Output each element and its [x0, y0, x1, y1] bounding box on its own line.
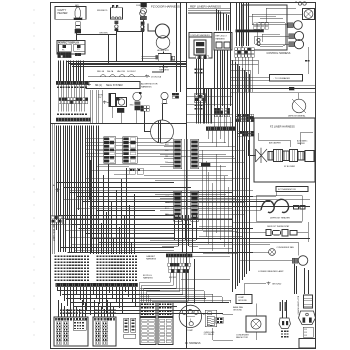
display mid connector	[194, 94, 206, 102]
mullion fan motor	[304, 10, 313, 19]
wires to arrow box	[230, 77, 270, 79]
svg-text:HARNESS: HARNESS	[146, 258, 157, 261]
wire top mid verticals	[204, 89, 206, 124]
wire ladder gap horizontals	[150, 170, 232, 172]
power plug small	[279, 318, 291, 329]
wire code row B	[57, 114, 59, 116]
svg-text:CONDENSER FAN: CONDENSER FAN	[277, 246, 295, 249]
wire mid right horizontals	[186, 96, 233, 98]
top right indicator circles	[298, 2, 301, 5]
svg-text:BASE PAN: BASE PAN	[233, 306, 243, 309]
lower freezer lamp	[292, 258, 298, 263]
wire plugs vertical	[282, 300, 284, 318]
aux connectors bottom mid-left	[124, 318, 129, 332]
arrow label box	[270, 75, 303, 82]
display board P3	[74, 44, 85, 51]
display pins row	[196, 56, 198, 59]
wire fan bottom horizontals	[58, 290, 160, 292]
svg-text:HARNESS: HARNESS	[141, 85, 152, 88]
ladder central rails	[184, 139, 186, 221]
control inner cells	[254, 23, 257, 26]
right section box	[256, 196, 302, 222]
condenser fan motor box	[246, 316, 266, 332]
svg-text:RED-7A: RED-7A	[97, 70, 105, 73]
display wire labels	[195, 69, 197, 71]
svg-text:HEATER: HEATER	[58, 12, 68, 15]
wire horizontal dark y123	[50, 123, 186, 125]
small connector below ladder	[129, 168, 135, 174]
wire ladder left feeds upper	[160, 142, 174, 144]
control harness nested box	[258, 22, 286, 46]
wire feeds secondary ladder	[86, 138, 104, 140]
svg-text:AUGER MTR: AUGER MTR	[157, 49, 169, 52]
svg-text:DOOR-FZ: DOOR-FZ	[127, 71, 136, 73]
wire wb recep down	[116, 31, 118, 34]
corner box	[299, 339, 316, 349]
display board P1	[59, 44, 72, 52]
svg-text:115: 115	[304, 335, 307, 337]
cabinet connector bar	[166, 254, 192, 258]
svg-text:SEAL SYSTEM: SEAL SYSTEM	[106, 84, 123, 87]
margin dots left	[33, 9, 34, 10]
wires bx to right	[181, 279, 230, 281]
border frame	[51, 3, 316, 349]
wire defrost chain right	[297, 232, 308, 234]
power plug main	[304, 295, 313, 308]
svg-text:GROUND: GROUND	[272, 284, 282, 286]
wire verticals bar to grid	[58, 85, 60, 98]
wire lamp thermostat	[298, 93, 300, 99]
connector rows lower	[237, 131, 239, 133]
wires ground area	[244, 283, 251, 285]
svg-text:WB RECD: WB RECD	[97, 10, 108, 12]
svg-text:DOOR-7DA: DOOR-7DA	[151, 76, 162, 79]
dispenser light bulb	[133, 92, 141, 100]
wire fan upper horizontals	[86, 142, 160, 144]
svg-text:SEE TECH SHEET: SEE TECH SHEET	[52, 224, 54, 242]
cavity heater box	[55, 7, 86, 20]
wire horiz ref top	[188, 8, 230, 10]
section divider control area left	[230, 2, 232, 88]
svg-text:PTC RELAY: PTC RELAY	[204, 333, 215, 336]
display wire labels lower	[195, 105, 197, 107]
light connector pair	[172, 93, 175, 95]
svg-text:GROUND: GROUND	[233, 310, 242, 312]
wires compressor relay	[203, 314, 205, 316]
svg-text:CABINET: CABINET	[146, 255, 156, 258]
svg-text:AIR DAMPER: AIR DAMPER	[269, 142, 281, 145]
svg-text:DEFROST THERMOSTAT: DEFROST THERMOSTAT	[267, 225, 290, 228]
relay side connector	[216, 317, 224, 323]
wire bundle mid horizontals	[60, 218, 232, 220]
water valve coil	[117, 98, 127, 107]
valve connector dark	[117, 108, 124, 112]
ref lamp 2	[289, 34, 295, 39]
control nested wires	[249, 16, 276, 18]
control wires vertical	[236, 2, 238, 46]
connector label rows right	[95, 310, 97, 312]
wire funchn down	[142, 30, 144, 33]
svg-text:DISPLAY HARNESS: DISPLAY HARNESS	[191, 34, 211, 37]
wire connector horizontal upper	[117, 31, 143, 33]
left connector rows under bar	[59, 98, 61, 101]
wire verticals display area	[204, 89, 206, 124]
ground label arrow	[268, 282, 270, 283]
connector label rows left	[60, 310, 62, 312]
ref lamp 1	[288, 23, 294, 28]
svg-text:HARNESS: HARNESS	[216, 38, 226, 41]
wire bundle verticals mid	[90, 90, 92, 123]
wire ladder right horizontals lower	[199, 194, 227, 196]
mid column dark blob	[201, 163, 210, 167]
control dark bar	[236, 30, 264, 33]
svg-text:A/C POWER SUPPLY: A/C POWER SUPPLY	[297, 296, 300, 315]
wire fan bottom verticals	[57, 287, 59, 291]
evap fan end cap	[305, 151, 314, 162]
wire drops to bottom connectors	[58, 300, 60, 317]
wires fz liner internals	[258, 140, 290, 142]
wire bundle right verticals	[232, 60, 234, 292]
display harness box	[189, 33, 212, 38]
wire fan circle connects	[144, 131, 151, 133]
evap fan propeller	[256, 148, 268, 163]
overload ptc relay	[205, 310, 216, 326]
wire fan left horizontal staircase	[57, 182, 175, 184]
ladder connector B bottom	[158, 303, 173, 317]
perfect display box	[57, 41, 85, 55]
svg-text:WH-7A: WH-7A	[107, 70, 114, 73]
main board connector block upper	[174, 139, 182, 169]
wire code row A	[57, 87, 59, 89]
cabinet connector row 3	[169, 269, 172, 272]
door ground	[146, 75, 148, 76]
wire auger to left	[148, 24, 156, 32]
wire door section verticals	[163, 52, 165, 54]
svg-text:AUGER MOTOR: AUGER MOTOR	[141, 83, 158, 86]
FZ liner harness box	[254, 118, 315, 182]
section divider control area bottom	[186, 88, 316, 90]
FZ fan motor circle	[151, 120, 174, 143]
plug lower grid	[303, 327, 313, 337]
wire drops to bundle	[116, 34, 118, 61]
control inner wires	[252, 14, 303, 16]
svg-text:115: 115	[304, 332, 307, 334]
plug wire labels rotated	[280, 302, 281, 311]
connector grid right mid	[236, 114, 238, 116]
wire fill tube down	[76, 33, 78, 34]
wires below strip	[208, 131, 210, 140]
condenser fan symbol	[269, 249, 276, 256]
wire code table left	[55, 256, 57, 258]
dark bar A	[56, 81, 89, 85]
svg-text:REF L/DUCT: REF L/DUCT	[216, 36, 228, 38]
wires to lt door box	[142, 56, 156, 58]
svg-text:HARNESS: HARNESS	[159, 68, 169, 71]
svg-text:CONDENSER: CONDENSER	[236, 335, 249, 337]
svg-text:VALCOM: VALCOM	[117, 70, 125, 73]
ladder connector A bottom	[140, 303, 156, 317]
wire lamps right vertical	[308, 47, 310, 74]
svg-text:AC HARNESS: AC HARNESS	[185, 342, 201, 345]
wire display verticals down to bar	[58, 61, 60, 82]
wire ladder right horizontals upper	[199, 142, 227, 144]
svg-text:BROWN: BROWN	[100, 33, 108, 35]
defrost heater coil	[261, 199, 289, 212]
svg-text:FZ DOOR HARNESS: FZ DOOR HARNESS	[151, 5, 180, 9]
svg-text:FAN MOTOR: FAN MOTOR	[236, 336, 248, 339]
wires evap fan	[248, 155, 256, 157]
svg-text:DEFROST HEATER: DEFROST HEATER	[270, 217, 290, 220]
freezer light bulb	[161, 92, 168, 99]
mid column horizontals lower	[199, 226, 233, 228]
connector stack mid right B	[224, 108, 227, 111]
wire verticals ref mid	[214, 50, 216, 106]
FZ thermistor box	[276, 187, 308, 192]
control connector grid	[235, 48, 238, 51]
fan connector rows	[141, 106, 144, 109]
wire right section horizontal	[233, 222, 302, 224]
display connector grid right	[75, 53, 78, 56]
wire ladder to bottom	[174, 215, 176, 240]
svg-text:COMP: COMP	[187, 330, 194, 332]
svg-text:→ TO ICEMAKER: → TO ICEMAKER	[272, 77, 290, 80]
svg-text:AIR: AIR	[75, 4, 79, 7]
main connector block left	[54, 317, 88, 346]
display wires down	[196, 59, 198, 124]
svg-text:115: 115	[304, 329, 307, 331]
wires control lower horizontals	[230, 60, 258, 62]
svg-text:COMP: COMP	[238, 297, 245, 299]
auger motor circle upper	[155, 24, 169, 38]
svg-text:DEFROST BIMETAL: DEFROST BIMETAL	[288, 115, 305, 118]
wire verticals grid to bar B	[58, 104, 60, 112]
wire bottom mid connects	[140, 288, 195, 290]
wire fan left vertical comb	[56, 126, 58, 231]
wire stack down to strip	[214, 117, 216, 127]
compressor	[179, 305, 201, 327]
mid column verticals	[202, 150, 204, 230]
svg-text:GROUND: GROUND	[238, 300, 247, 302]
svg-text:FZ BLOWER: FZ BLOWER	[284, 166, 296, 168]
svg-text:HARNESS: HARNESS	[143, 277, 153, 280]
secondary connector ladder right column	[123, 137, 138, 164]
cable bundle labels	[88, 76, 150, 78]
dark bar B	[56, 118, 90, 122]
mullion fan box	[303, 9, 315, 20]
fill tube connector pieces	[76, 22, 80, 25]
svg-text:DAMPER: DAMPER	[297, 142, 305, 145]
small connector circles	[257, 38, 260, 41]
control harness inner box	[242, 5, 287, 50]
wb recep lower pieces	[115, 21, 119, 24]
auger motor circle lower	[156, 36, 170, 50]
svg-text:FZ THERMISTOR: FZ THERMISTOR	[278, 189, 296, 191]
seal system label box	[86, 82, 140, 89]
wire code table right	[97, 256, 99, 258]
wire verticals ref top	[216, 9, 218, 31]
connector stack mid right A	[214, 108, 217, 111]
wire trunk to compressor	[186, 215, 188, 304]
display connector grid left	[58, 52, 60, 54]
heavy connector bar	[56, 283, 138, 287]
secondary connector ladder left column	[104, 137, 116, 164]
wires cabinet rows verticals	[168, 257, 170, 263]
svg-text:FZ LINER HARNESS: FZ LINER HARNESS	[270, 125, 295, 129]
FZ door left connector stack	[141, 3, 147, 8]
ground symbol left	[57, 188, 59, 189]
section divider FZ door / main	[186, 2, 188, 348]
LT door component box	[158, 54, 171, 62]
wire wtr valve connects	[112, 107, 114, 119]
display module	[194, 40, 206, 55]
ref duct box	[214, 33, 232, 51]
wire control low horizontal	[230, 85, 316, 87]
wire left edge bundle	[52, 124, 54, 255]
edge connector left	[51, 215, 63, 224]
wires nested L drops to bottom ladders	[140, 273, 171, 303]
bg connector on divider	[289, 87, 294, 90]
water valve body	[109, 94, 116, 107]
wire staircase extra	[70, 190, 253, 192]
wire ladder left feeds lower	[155, 194, 174, 196]
evap fan motor ribbed body	[268, 152, 273, 161]
cabinet connector row 2	[168, 263, 171, 266]
wire fan verticals into tables	[90, 160, 92, 254]
wire bundle horizontal	[66, 61, 186, 63]
main connector block right	[93, 317, 116, 346]
dark connector strip	[206, 127, 235, 131]
wire horizontals mid left extra	[96, 166, 129, 168]
svg-text:REF LINER HARNESS: REF LINER HARNESS	[190, 5, 221, 9]
comp ground box	[236, 295, 252, 304]
divider line right mid	[230, 92, 316, 94]
control wires below grid	[235, 57, 237, 92]
defrost thermostat top	[292, 99, 306, 113]
wire branches to defrost	[233, 210, 261, 212]
wire brown horizontal	[77, 34, 117, 36]
svg-text:NR-(1): NR-(1)	[95, 85, 102, 87]
svg-text:CONTROL HARNESS: CONTROL HARNESS	[267, 52, 291, 55]
ref lamp 3	[289, 42, 295, 47]
main board connector block lower	[174, 191, 182, 221]
svg-text:LOWER FREEZER LAMP: LOWER FREEZER LAMP	[258, 270, 284, 273]
